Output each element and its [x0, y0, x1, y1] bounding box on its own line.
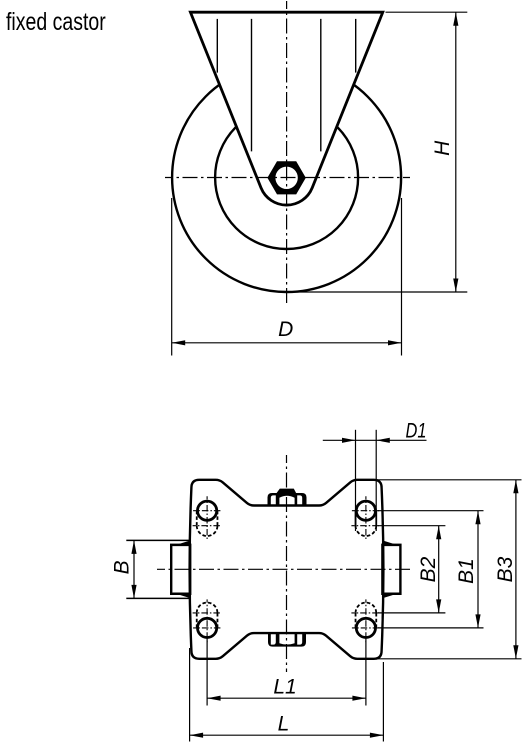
- dimension H extension line top: [386, 11, 468, 13]
- svg-text:B1: B1: [455, 558, 478, 584]
- hole top-left circle: [198, 501, 217, 520]
- hole top-left slot end arc: [197, 526, 218, 536]
- dimension D line: [172, 342, 402, 344]
- svg-text:L1: L1: [273, 676, 296, 699]
- dimension D extension line left: [171, 198, 173, 356]
- dimension B3 extension line bottom: [376, 658, 522, 660]
- axle hex nut: [270, 163, 304, 192]
- top mounting boss (kingpin head): [268, 489, 307, 507]
- dimension L extension line left: [189, 648, 191, 742]
- svg-text:H: H: [431, 140, 454, 156]
- dimension B3 line: [515, 480, 517, 659]
- dimension B1 extension line top: [378, 510, 484, 512]
- left tab bottom sliver: [172, 593, 190, 599]
- dimension L1 extension line left: [206, 638, 208, 706]
- hole bottom-right slot side left: [355, 613, 357, 628]
- svg-text:L: L: [278, 713, 290, 736]
- dimension H line: [455, 12, 457, 292]
- dimension D1 extension line right: [375, 430, 377, 531]
- fork bracket outline: [190, 12, 382, 205]
- fork inner edge line 2: [251, 19, 253, 152]
- dimension B1 extension line bottom: [378, 627, 484, 629]
- right tab top sliver: [383, 541, 401, 547]
- fork inner edge line 1: [216, 19, 218, 73]
- svg-text:B3: B3: [494, 556, 517, 582]
- bottom view vertical centerline: [286, 455, 288, 672]
- dimension B1 line: [477, 511, 479, 628]
- dimension L line: [190, 734, 384, 736]
- fork inner edge line 3: [320, 19, 322, 152]
- dimension B line: [133, 540, 135, 598]
- hole bottom-right centerlines: [352, 627, 381, 629]
- hole bottom-left circle: [198, 618, 217, 637]
- svg-text:D1: D1: [406, 420, 427, 443]
- bottom view horizontal centerline: [157, 568, 412, 570]
- dimension D1 extension line left: [355, 430, 357, 531]
- hole top-right slot side right: [375, 511, 377, 526]
- top view horizontal centerline: [165, 177, 410, 179]
- bottom mounting boss (nut): [268, 632, 306, 647]
- hole bottom-left centerlines: [193, 627, 222, 629]
- right wheel tab: [382, 545, 400, 594]
- left tab top sliver: [172, 541, 190, 547]
- dimension H extension line bottom: [287, 291, 467, 293]
- dimension B2 extension line bottom: [378, 612, 445, 614]
- hole bottom-left slot side left: [196, 613, 198, 628]
- top view vertical centerline: [286, 1, 288, 307]
- hole bottom-right slot end arc: [356, 603, 377, 613]
- dimension D1 line: [323, 439, 427, 441]
- dimension B extension line top: [126, 539, 190, 541]
- dimension B2 line: [438, 526, 440, 613]
- svg-text:B2: B2: [417, 556, 440, 582]
- svg-text:D: D: [278, 318, 293, 341]
- hole bottom-right slot side right: [375, 613, 377, 628]
- axle nut circle: [274, 165, 300, 191]
- title: fixed castor: [6, 8, 106, 37]
- right tab bottom sliver: [383, 593, 401, 599]
- hole top-left centerlines: [193, 510, 222, 512]
- dimension L1 line: [207, 697, 366, 699]
- hole bottom-right circle: [356, 618, 375, 637]
- hole top-left slot side right: [216, 511, 218, 526]
- dimension B3 extension line top: [376, 479, 522, 481]
- dimension B extension line bottom: [126, 597, 190, 599]
- hole top-left slot side left: [196, 511, 198, 526]
- dimension L extension line right: [382, 662, 384, 742]
- left wheel tab: [171, 545, 190, 594]
- wheel outer circle: [172, 63, 401, 292]
- dimension D extension line right: [401, 198, 403, 356]
- hole top-right centerlines: [352, 510, 381, 512]
- hole top-right circle: [356, 501, 375, 520]
- mounting plate outline: [190, 480, 384, 659]
- hole bottom-left slot end arc: [197, 603, 218, 613]
- wheel hub middle circle: [215, 106, 358, 249]
- hole top-right slot side left: [355, 511, 357, 526]
- hole bottom-left slot side right: [216, 613, 218, 628]
- svg-text:B: B: [111, 560, 134, 574]
- hole top-right slot end arc: [356, 526, 377, 536]
- fork inner edge line 4: [355, 19, 357, 73]
- dimension B2 extension line top: [378, 525, 445, 527]
- dimension L1 extension line right: [365, 638, 367, 706]
